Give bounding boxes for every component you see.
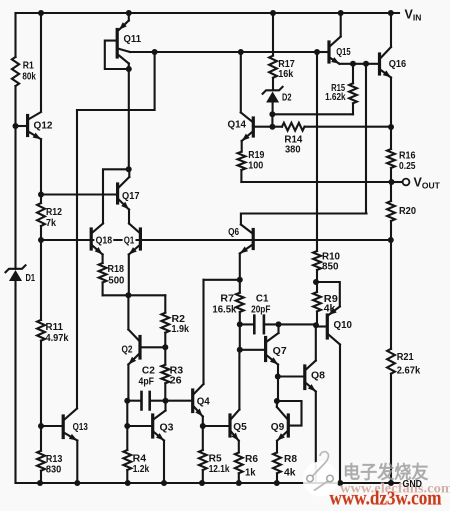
svg-text:GND: GND bbox=[403, 478, 423, 490]
svg-text:R1: R1 bbox=[23, 61, 34, 72]
svg-text:R8: R8 bbox=[284, 454, 297, 465]
svg-text:R11: R11 bbox=[46, 322, 64, 333]
svg-text:Q1: Q1 bbox=[124, 235, 135, 246]
svg-text:Q2: Q2 bbox=[122, 345, 133, 356]
svg-text:www.dz3w.com: www.dz3w.com bbox=[330, 488, 442, 506]
svg-text:Q17: Q17 bbox=[122, 191, 140, 202]
svg-text:C1: C1 bbox=[256, 294, 269, 305]
svg-text:R5: R5 bbox=[209, 454, 222, 465]
svg-text:4k: 4k bbox=[284, 468, 296, 479]
svg-text:Q4: Q4 bbox=[197, 397, 210, 408]
svg-text:Q10: Q10 bbox=[334, 320, 353, 331]
svg-text:7k: 7k bbox=[46, 218, 56, 229]
svg-text:Q7: Q7 bbox=[273, 346, 287, 357]
svg-text:Q15: Q15 bbox=[336, 47, 351, 58]
svg-text:Q11: Q11 bbox=[124, 34, 142, 45]
svg-text:R18: R18 bbox=[108, 264, 125, 275]
svg-text:1.2k: 1.2k bbox=[133, 464, 150, 475]
svg-text:Q12: Q12 bbox=[34, 120, 53, 131]
svg-text:D2: D2 bbox=[282, 92, 292, 103]
svg-text:1.9k: 1.9k bbox=[172, 324, 190, 335]
svg-text:12.1k: 12.1k bbox=[209, 464, 230, 475]
svg-text:Q3: Q3 bbox=[160, 423, 174, 434]
svg-text:Q13: Q13 bbox=[73, 422, 89, 433]
svg-text:0.25: 0.25 bbox=[399, 161, 416, 172]
svg-text:500: 500 bbox=[108, 276, 124, 287]
svg-text:1.62k: 1.62k bbox=[325, 92, 346, 103]
svg-text:4k: 4k bbox=[324, 304, 336, 315]
svg-text:Q5: Q5 bbox=[233, 422, 247, 433]
svg-text:100: 100 bbox=[248, 160, 263, 171]
svg-text:Q18: Q18 bbox=[96, 235, 113, 246]
svg-text:R12: R12 bbox=[46, 207, 62, 218]
svg-text:R4: R4 bbox=[133, 454, 147, 465]
svg-text:26: 26 bbox=[170, 376, 182, 387]
svg-text:R20: R20 bbox=[399, 206, 416, 217]
svg-text:16k: 16k bbox=[278, 69, 293, 80]
svg-text:4.97k: 4.97k bbox=[46, 333, 69, 344]
svg-text:Q14: Q14 bbox=[228, 120, 247, 131]
svg-text:380: 380 bbox=[285, 144, 301, 155]
svg-text:850: 850 bbox=[322, 262, 339, 273]
svg-text:2.67k: 2.67k bbox=[397, 366, 421, 377]
svg-text:4pF: 4pF bbox=[139, 376, 155, 387]
svg-text:20pF: 20pF bbox=[251, 305, 270, 316]
svg-text:C2: C2 bbox=[142, 366, 155, 377]
svg-text:Q8: Q8 bbox=[311, 371, 325, 382]
svg-text:R13: R13 bbox=[46, 454, 63, 465]
svg-text:830: 830 bbox=[46, 465, 62, 476]
svg-text:Q9: Q9 bbox=[271, 422, 285, 433]
svg-text:Q6: Q6 bbox=[228, 227, 239, 238]
svg-text:R7: R7 bbox=[220, 294, 234, 305]
svg-text:Q16: Q16 bbox=[389, 59, 407, 70]
svg-text:R6: R6 bbox=[245, 454, 258, 465]
svg-text:D1: D1 bbox=[26, 273, 36, 284]
svg-text:R21: R21 bbox=[397, 352, 414, 363]
svg-text:16.5k: 16.5k bbox=[212, 305, 236, 316]
svg-text:1k: 1k bbox=[245, 468, 256, 479]
svg-text:80k: 80k bbox=[22, 72, 36, 83]
